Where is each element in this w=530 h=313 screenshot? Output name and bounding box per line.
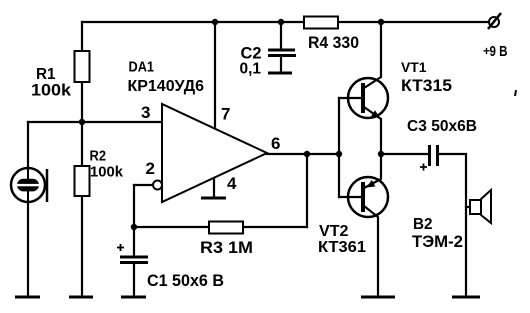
svg-text:DA1: DA1 (129, 60, 155, 76)
svg-text:В2: В2 (413, 216, 433, 233)
svg-text:3: 3 (141, 103, 150, 122)
svg-text:4: 4 (227, 174, 237, 193)
svg-text:6: 6 (271, 134, 280, 153)
svg-text:КТ361: КТ361 (318, 239, 366, 256)
svg-text:C1 50x6 В: C1 50x6 В (147, 272, 224, 290)
svg-text:КР140УД6: КР140УД6 (128, 78, 205, 95)
svg-text:R2: R2 (90, 149, 107, 165)
svg-text:VT2: VT2 (319, 223, 349, 240)
svg-text:100k: 100k (31, 82, 72, 100)
svg-text:7: 7 (221, 105, 230, 124)
svg-text:VT1: VT1 (401, 59, 427, 75)
svg-text:R1: R1 (36, 66, 56, 83)
svg-text:R4 330: R4 330 (308, 34, 359, 52)
svg-text:0,1: 0,1 (240, 61, 262, 78)
svg-text:ТЭМ-2: ТЭМ-2 (412, 233, 463, 251)
svg-text:100k: 100k (90, 165, 124, 181)
svg-text:C3 50x6В: C3 50x6В (407, 118, 477, 135)
svg-text:9 В: 9 В (490, 44, 508, 60)
svg-text:2: 2 (146, 159, 155, 178)
svg-text:R3 1M: R3 1M (200, 238, 253, 257)
svg-text:КТ315: КТ315 (401, 77, 452, 95)
